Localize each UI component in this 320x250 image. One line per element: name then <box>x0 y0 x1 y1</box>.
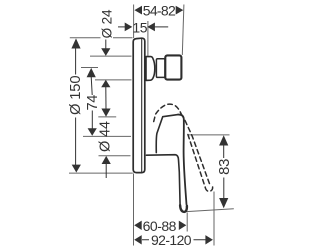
svg-text:Ø 150: Ø 150 <box>68 76 84 115</box>
svg-text:15: 15 <box>132 20 147 36</box>
svg-text:Ø 44: Ø 44 <box>97 121 113 152</box>
svg-text:74: 74 <box>85 95 101 111</box>
svg-text:92-120: 92-120 <box>151 232 192 248</box>
svg-text:Ø 24: Ø 24 <box>99 9 114 38</box>
svg-text:83: 83 <box>217 159 233 175</box>
svg-text:54-82: 54-82 <box>143 3 176 19</box>
